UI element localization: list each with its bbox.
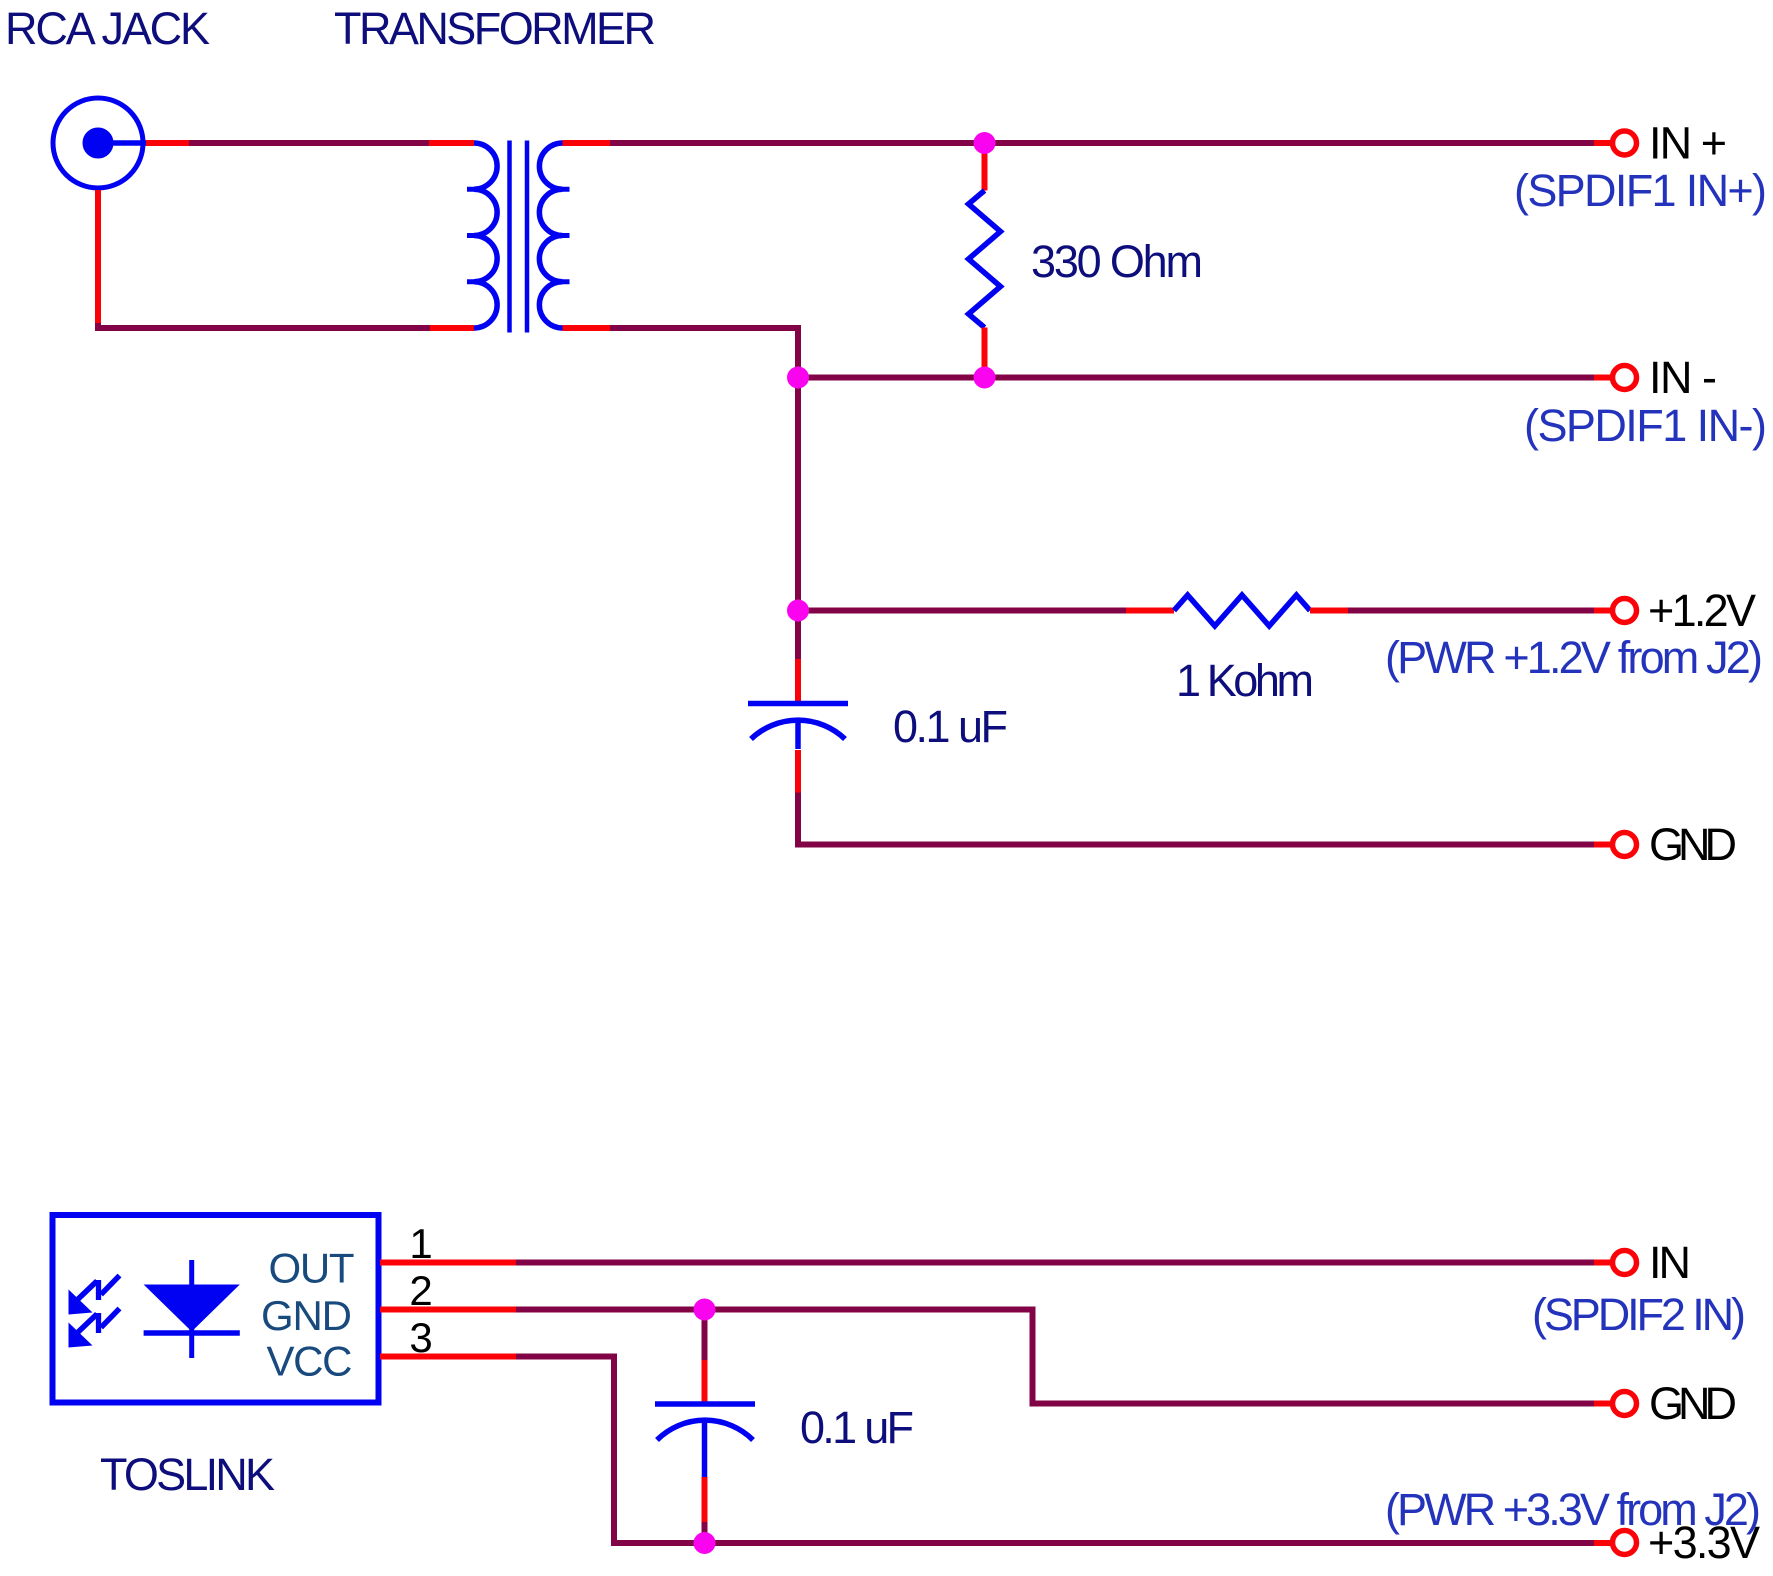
svg-text:0.1 uF: 0.1 uF [893, 701, 1008, 752]
wire junction to capacitor C2 [702, 1310, 708, 1407]
svg-text:GND: GND [261, 1292, 352, 1339]
node junction B below 330 Ohm [974, 367, 996, 389]
svg-text:IN: IN [1649, 1237, 1691, 1288]
wire jack sleeve to transformer primary bottom [98, 190, 474, 328]
wire capacitor C1 to GND terminal [798, 750, 1612, 845]
terminal GND bottom [1613, 1392, 1637, 1416]
wire transformer secondary top to IN+ terminal [563, 140, 1613, 146]
connector RCA jack J1 [53, 98, 146, 188]
terminal IN- [1613, 366, 1637, 390]
capacitor 0.1 uF C1 [748, 704, 848, 750]
wire junction C to 1 Kohm resistor [798, 608, 1174, 614]
node junction pin2 / capacitor C2 [694, 1299, 716, 1321]
terminal IN+ [1613, 131, 1637, 155]
svg-text:1 Kohm: 1 Kohm [1176, 655, 1314, 706]
node junction capacitor C2 on +3.3V rail [694, 1532, 716, 1554]
TOSLINK module U1 box [53, 1215, 379, 1403]
wire pin1 OUT to IN terminal [380, 1260, 1612, 1266]
svg-text:OUT: OUT [269, 1245, 355, 1292]
transformer T1 [467, 141, 570, 333]
terminal +3.3V [1613, 1531, 1637, 1555]
terminal IN bottom [1613, 1251, 1637, 1275]
svg-text:VCC: VCC [267, 1338, 353, 1385]
svg-text:TRANSFORMER: TRANSFORMER [334, 3, 656, 54]
photodiode inside TOSLINK [144, 1260, 240, 1358]
svg-text:330 Ohm: 330 Ohm [1031, 236, 1203, 287]
node junction A [787, 367, 809, 389]
svg-text:IN -: IN - [1649, 352, 1717, 403]
svg-text:(SPDIF1 IN+): (SPDIF1 IN+) [1514, 165, 1767, 216]
wire pin3 VCC to +3.3V terminal [380, 1357, 1612, 1544]
wire junction C down to capacitor C1 [795, 611, 801, 706]
svg-text:GND: GND [1649, 1378, 1737, 1429]
light arrow 2 [69, 1309, 120, 1348]
svg-text:(PWR +1.2V from J2): (PWR +1.2V from J2) [1385, 632, 1763, 683]
terminal +1.2V [1613, 599, 1637, 623]
resistor 330 Ohm [969, 143, 1001, 378]
wire jack to transformer primary top [146, 140, 474, 146]
wire junction A down to junction C [795, 378, 801, 611]
wire pin2 GND to GND terminal [380, 1310, 1612, 1404]
svg-text:+1.2V: +1.2V [1648, 585, 1756, 636]
svg-text:IN +: IN + [1649, 118, 1727, 169]
resistor 1 Kohm [1174, 595, 1310, 626]
node junction C [787, 600, 809, 622]
wire junction A to IN- terminal [798, 375, 1612, 381]
wire capacitor C2 to +3.3V rail [702, 1477, 708, 1543]
wire transformer secondary bottom to junction A [563, 328, 799, 378]
node junction top of 330 Ohm [974, 132, 996, 154]
capacitor 0.1 uF C2 [655, 1404, 755, 1477]
light arrow 1 [69, 1276, 120, 1315]
svg-text:+3.3V: +3.3V [1648, 1517, 1760, 1568]
svg-text:(SPDIF1 IN-): (SPDIF1 IN-) [1524, 400, 1767, 451]
svg-text:RCA JACK: RCA JACK [5, 3, 210, 54]
svg-text:0.1 uF: 0.1 uF [800, 1402, 914, 1453]
svg-text:(SPDIF2 IN): (SPDIF2 IN) [1532, 1289, 1746, 1340]
wire 1 Kohm to +1.2V terminal [1310, 608, 1612, 614]
terminal GND top [1613, 833, 1637, 857]
svg-text:GND: GND [1649, 819, 1737, 870]
svg-text:TOSLINK: TOSLINK [100, 1449, 275, 1500]
